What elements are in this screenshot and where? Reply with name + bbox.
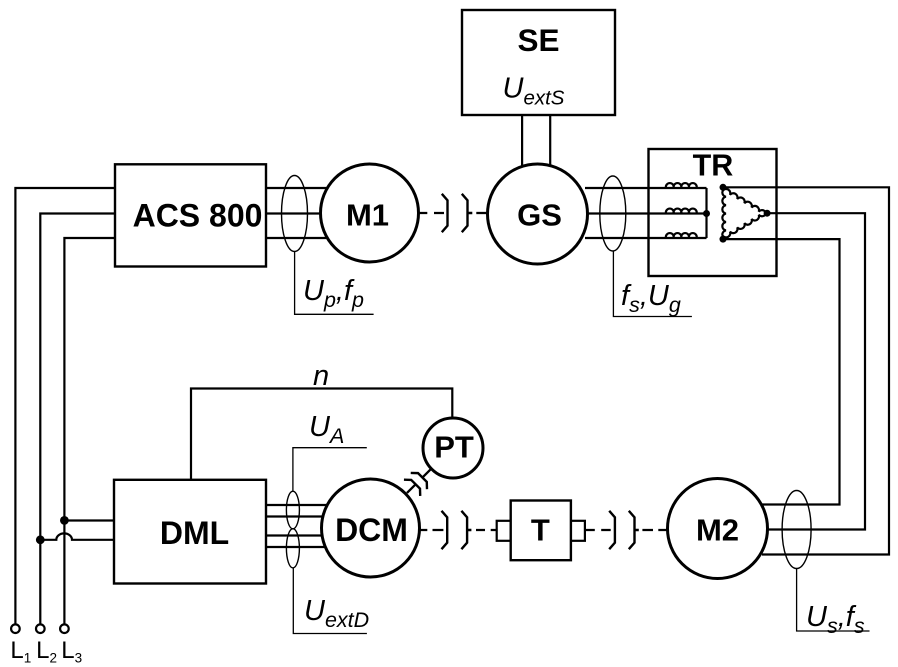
coupling DCM-PT (diagonal) bbox=[399, 461, 439, 501]
DC machine DCM circle bbox=[322, 479, 420, 577]
coupling DCM-T left half bbox=[442, 511, 448, 549]
terminal L2 bbox=[36, 624, 45, 633]
measuring ellipse Us,fs bbox=[782, 491, 811, 569]
torque transducer T left stub bbox=[497, 521, 511, 541]
TR delta vertex dot bottom bbox=[720, 236, 727, 243]
shaft T-M2 stub+dash left bbox=[585, 529, 611, 531]
motor M1 circle bbox=[321, 164, 419, 262]
coupling M1-GS right half bbox=[462, 194, 473, 232]
coupling T-M2 left half bbox=[609, 511, 615, 549]
leader wire UA bbox=[293, 448, 367, 492]
svg-text:T: T bbox=[531, 513, 550, 548]
svg-text:DML: DML bbox=[160, 515, 229, 551]
TR wye coil phase 1 bbox=[666, 183, 697, 188]
wire TR top output to M2 bottom phase bbox=[723, 187, 889, 554]
TR wye coil phase 2 bbox=[666, 209, 697, 214]
TR delta bottom side (scalloped) bbox=[723, 210, 766, 237]
DML box (DC machine supply) bbox=[114, 480, 266, 584]
TR wye star bus bbox=[705, 188, 707, 238]
shaft DCM-T dashes right bbox=[476, 529, 497, 531]
torque transducer T right stub bbox=[571, 521, 585, 541]
ACS 800 box (frequency converter) bbox=[115, 164, 266, 266]
wires ACS800 to M1 (3-phase) bbox=[266, 188, 369, 238]
terminal L3 bbox=[60, 624, 69, 633]
wires DML to DCM (armature + excitation) bbox=[266, 505, 345, 547]
wire L3 feed (vertical + to ACS800) bbox=[64, 238, 115, 624]
shaft DCM-T stub+dash left bbox=[420, 529, 444, 531]
tacho PT circle bbox=[423, 418, 483, 478]
wire TR bottom output to M2 top phase bbox=[723, 239, 840, 504]
leader wire UextD bbox=[293, 568, 367, 634]
TR delta left side (scalloped) bbox=[722, 188, 726, 239]
coupling DCM-T right half bbox=[461, 511, 471, 549]
wire L2 feed (vertical + to ACS800) bbox=[40, 214, 115, 625]
svg-text:GS: GS bbox=[517, 198, 562, 233]
coupling M1-GS left half bbox=[442, 194, 448, 232]
generator GS circle bbox=[488, 164, 588, 264]
svg-text:M2: M2 bbox=[696, 512, 739, 547]
measuring ellipse UextD (excitation) bbox=[286, 529, 299, 568]
measuring ellipse Up,fp bbox=[282, 176, 308, 252]
svg-text:SE: SE bbox=[517, 22, 559, 58]
coupling T-M2 right half bbox=[629, 511, 639, 549]
SE to GS wires bbox=[521, 115, 523, 166]
terminal L1 bbox=[11, 624, 20, 633]
wire n (speed feedback DML to PT) bbox=[191, 389, 452, 480]
measuring ellipse UA (armature) bbox=[286, 491, 299, 529]
TR wye coil phase 3 bbox=[666, 233, 697, 238]
leader wire Up,fp bbox=[295, 252, 374, 315]
leader wire fs,Ug bbox=[613, 251, 692, 317]
TR star point dot bbox=[703, 210, 710, 217]
torque transducer T box bbox=[511, 501, 571, 561]
motor M2 circle bbox=[668, 479, 768, 579]
shaft T-M2 dashes right bbox=[642, 529, 667, 531]
svg-text:DCM: DCM bbox=[335, 512, 408, 548]
measuring ellipse fs,Ug bbox=[600, 176, 626, 251]
shaft M1-GS stub+dash left bbox=[419, 212, 444, 214]
SE box (excitation supply) bbox=[462, 10, 615, 115]
svg-text:M1: M1 bbox=[346, 198, 389, 233]
wire L1 feed (vertical + to ACS800) bbox=[15, 188, 115, 624]
wire tap L2 to DML with hop over L3 bbox=[40, 533, 114, 539]
svg-text:n: n bbox=[313, 360, 329, 392]
junction dot on L3 (tap to DML) bbox=[60, 516, 69, 525]
wire tap L3 to DML bbox=[64, 519, 114, 521]
TR delta top side (scalloped) bbox=[723, 189, 766, 216]
svg-text:TR: TR bbox=[693, 148, 734, 182]
transformer TR box bbox=[649, 149, 777, 276]
shaft M1-GS dash right bbox=[476, 212, 486, 214]
wires GS to TR wye (3-phase, continuous under coils) bbox=[585, 188, 707, 238]
TR delta vertex dot right bbox=[764, 210, 771, 217]
leader wire Us,fs bbox=[797, 568, 870, 631]
junction dot on L2 (tap to DML) bbox=[36, 535, 45, 544]
wire TR middle output to M2 middle phase bbox=[762, 213, 865, 529]
svg-text:ACS 800: ACS 800 bbox=[133, 197, 263, 233]
svg-text:PT: PT bbox=[434, 430, 474, 465]
TR delta vertex dot top bbox=[720, 184, 727, 191]
